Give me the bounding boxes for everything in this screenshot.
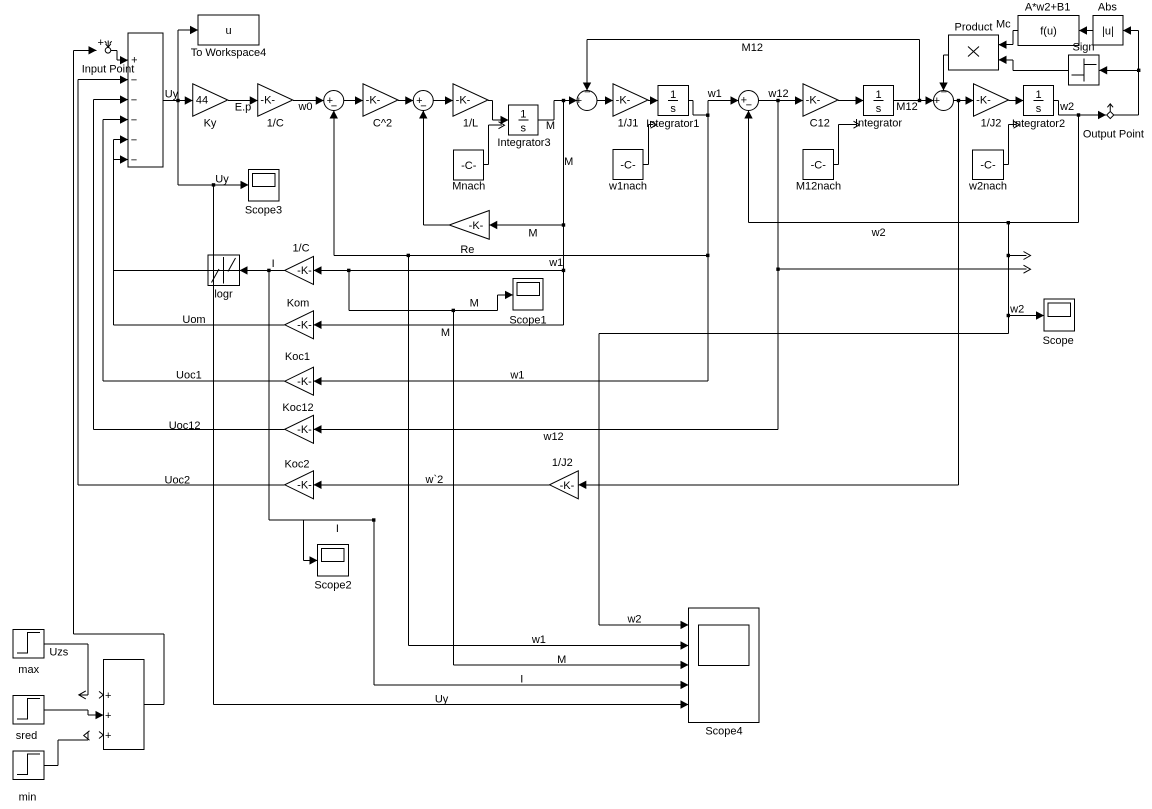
svg-text:-C-: -C- (620, 160, 636, 172)
svg-text:s: s (1036, 103, 1042, 115)
svg-text:w1: w1 (531, 634, 546, 646)
svg-text:Uoc2: Uoc2 (165, 475, 191, 487)
svg-text:|u|: |u| (1102, 26, 1114, 38)
svg-text:I: I (336, 523, 339, 535)
svg-text:1: 1 (670, 89, 676, 101)
svg-text:-K-: -K- (260, 94, 275, 106)
svg-text:−: − (941, 87, 947, 99)
svg-text:E.p: E.p (235, 102, 252, 114)
svg-text:−: − (131, 135, 137, 147)
svg-text:+: + (105, 710, 111, 722)
svg-text:-K-: -K- (976, 94, 991, 106)
svg-text:w1: w1 (509, 370, 524, 382)
svg-text:-K-: -K- (297, 480, 312, 492)
svg-text:M12: M12 (896, 101, 917, 113)
svg-text:1: 1 (1035, 89, 1041, 101)
svg-text:−: − (331, 100, 337, 112)
svg-text:Uom: Uom (182, 314, 205, 326)
svg-text:Uoc1: Uoc1 (176, 370, 202, 382)
svg-text:+: + (576, 95, 582, 107)
svg-text:C12: C12 (810, 118, 830, 130)
svg-text:-K-: -K- (456, 94, 471, 106)
svg-text:Uzs: Uzs (49, 647, 68, 659)
svg-text:M: M (441, 327, 450, 339)
svg-text:Integrator2: Integrator2 (1012, 118, 1065, 130)
svg-text:-K-: -K- (806, 94, 821, 106)
svg-text:-C-: -C- (980, 160, 996, 172)
svg-text:Input Point: Input Point (82, 64, 135, 76)
svg-text:+: + (131, 55, 137, 67)
svg-text:+: + (97, 37, 103, 49)
svg-text:u: u (225, 25, 231, 37)
svg-text:−: − (746, 100, 752, 112)
svg-text:To Workspace4: To Workspace4 (191, 47, 267, 59)
svg-text:w0: w0 (297, 101, 312, 113)
svg-text:Integrator1: Integrator1 (646, 118, 699, 130)
svg-text:Integrator: Integrator (855, 118, 902, 130)
svg-text:s: s (521, 123, 527, 135)
svg-text:Koc2: Koc2 (284, 459, 309, 471)
svg-text:1/J2: 1/J2 (552, 457, 573, 469)
svg-text:Output Point: Output Point (1083, 129, 1144, 141)
svg-text:min: min (19, 792, 37, 804)
svg-text:M12nach: M12nach (796, 181, 841, 193)
svg-text:I: I (520, 674, 523, 686)
svg-text:1/J1: 1/J1 (618, 118, 639, 130)
svg-text:+: + (934, 95, 940, 107)
svg-text:Scope: Scope (1043, 335, 1074, 347)
svg-text:+: + (105, 730, 111, 742)
svg-text:-K-: -K- (366, 94, 381, 106)
svg-text:Scope2: Scope2 (314, 580, 351, 592)
svg-text:w1: w1 (548, 257, 563, 269)
svg-text:w2: w2 (1059, 101, 1074, 113)
svg-text:Integrator3: Integrator3 (497, 137, 550, 149)
svg-text:−: − (584, 87, 590, 99)
svg-text:f(u): f(u) (1040, 26, 1057, 38)
svg-text:M: M (546, 120, 555, 132)
svg-text:1/L: 1/L (463, 118, 478, 130)
svg-text:1: 1 (875, 89, 881, 101)
svg-text:sred: sred (16, 730, 37, 742)
svg-text:logr: logr (214, 289, 233, 301)
svg-text:M: M (557, 654, 566, 666)
svg-text:1/C: 1/C (267, 118, 284, 130)
svg-text:−: − (420, 100, 426, 112)
svg-text:Sign: Sign (1072, 42, 1094, 54)
svg-text:M12: M12 (742, 42, 763, 54)
svg-text:−: − (131, 75, 137, 87)
svg-text:Uy: Uy (435, 694, 449, 706)
svg-text:w`2: w`2 (425, 474, 444, 486)
svg-text:−: − (131, 115, 137, 127)
svg-text:−: − (131, 95, 137, 107)
svg-text:Product: Product (955, 22, 993, 34)
svg-text:M: M (528, 228, 537, 240)
svg-text:-K-: -K- (469, 220, 484, 232)
svg-text:Uy: Uy (215, 174, 229, 186)
svg-text:-K-: -K- (560, 480, 575, 492)
svg-text:I: I (272, 258, 275, 270)
svg-text:Ky: Ky (204, 118, 217, 130)
svg-text:Abs: Abs (1098, 2, 1117, 14)
svg-text:Koc12: Koc12 (282, 402, 313, 414)
svg-text:Scope1: Scope1 (509, 315, 546, 327)
svg-text:1: 1 (520, 109, 526, 121)
svg-text:max: max (18, 664, 39, 676)
svg-text:s: s (670, 103, 676, 115)
svg-text:Koc1: Koc1 (285, 351, 310, 363)
svg-text:Uy: Uy (165, 89, 179, 101)
svg-text:-C-: -C- (461, 160, 477, 172)
svg-text:-K-: -K- (297, 376, 312, 388)
svg-text:A*w2+B1: A*w2+B1 (1025, 2, 1071, 14)
svg-text:+: + (105, 690, 111, 702)
svg-text:-C-: -C- (811, 160, 827, 172)
svg-text:w2: w2 (871, 227, 886, 239)
svg-text:Kom: Kom (287, 298, 310, 310)
svg-text:w2: w2 (626, 614, 641, 626)
svg-text:w2: w2 (1009, 304, 1024, 316)
svg-text:-K-: -K- (297, 265, 312, 277)
svg-text:Re: Re (460, 244, 474, 256)
svg-text:w12: w12 (767, 88, 788, 100)
svg-text:-K-: -K- (616, 94, 631, 106)
svg-text:w12: w12 (543, 431, 564, 443)
svg-text:w1: w1 (707, 88, 722, 100)
svg-text:M: M (470, 298, 479, 310)
svg-text:Scope3: Scope3 (245, 205, 282, 217)
svg-text:Uoc12: Uoc12 (169, 420, 201, 432)
svg-text:-K-: -K- (297, 424, 312, 436)
svg-text:M: M (564, 156, 573, 168)
svg-text:C^2: C^2 (373, 118, 392, 130)
svg-text:44: 44 (196, 94, 208, 106)
svg-text:s: s (876, 103, 882, 115)
svg-text:Mc: Mc (996, 19, 1011, 31)
svg-text:Mnach: Mnach (452, 181, 485, 193)
svg-text:1/C: 1/C (292, 243, 309, 255)
svg-text:w1nach: w1nach (608, 181, 647, 193)
svg-text:-K-: -K- (297, 320, 312, 332)
svg-text:w2nach: w2nach (968, 181, 1007, 193)
svg-text:−: − (131, 155, 137, 167)
svg-text:1/J2: 1/J2 (981, 118, 1002, 130)
svg-text:Scope4: Scope4 (705, 726, 742, 738)
